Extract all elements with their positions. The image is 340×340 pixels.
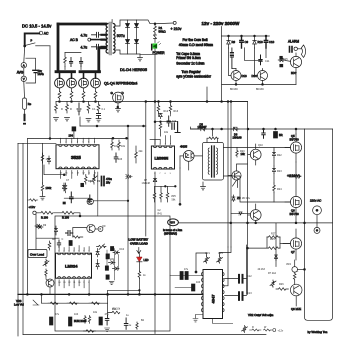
connector +12v	[33, 211, 36, 214]
resistor RW6	[136, 322, 138, 329]
trimmer VR6	[43, 259, 49, 266]
svg-text:C7: C7	[66, 179, 70, 182]
svg-text:22k: 22k	[110, 258, 115, 261]
resistor RQ8	[293, 272, 296, 280]
svg-text:4k7: 4k7	[52, 238, 57, 241]
svg-text:104: 104	[196, 281, 201, 284]
diode DA3	[278, 58, 285, 62]
svg-text:BR: BR	[279, 133, 283, 137]
thick bus top	[58, 23, 106, 26]
wire V to shunt	[23, 82, 26, 99]
resistor RW7	[108, 311, 120, 314]
svg-text:1u: 1u	[129, 324, 132, 327]
pin numbers U2	[154, 144, 172, 175]
svg-text:ALARM: ALARM	[288, 40, 299, 44]
mosfet Q3	[79, 73, 89, 92]
ground RS2	[65, 118, 70, 121]
svg-text:IRF740: IRF740	[290, 212, 300, 216]
capacitor CL1	[70, 192, 74, 203]
svg-text:3: 3	[71, 141, 73, 143]
frame left outer line	[17, 143, 19, 336]
IC U3 LM324	[56, 253, 92, 278]
mosfet Q7	[283, 229, 302, 260]
transistor QA1	[231, 69, 247, 85]
svg-text:R9: R9	[97, 180, 101, 183]
svg-text:47u: 47u	[105, 313, 110, 316]
svg-text:13: 13	[77, 173, 80, 175]
svg-text:Q10: Q10	[258, 144, 263, 147]
svg-text:4N35: 4N35	[180, 145, 188, 149]
ic1 top pin wires	[60, 138, 94, 143]
svg-text:+12v: +12v	[29, 205, 36, 209]
svg-text:OVER LOAD: OVER LOAD	[130, 242, 149, 246]
wire shutdown vertical	[145, 102, 147, 237]
wire secondary top	[116, 20, 137, 26]
diode D2	[126, 40, 130, 44]
transistor QM1	[87, 224, 95, 232]
transistor QB1	[87, 198, 93, 204]
resistor RL2	[41, 183, 44, 193]
sense resistor RS2	[66, 102, 69, 114]
svg-text:VR4: VR4	[286, 263, 291, 266]
svg-text:W: W	[264, 326, 267, 329]
diode D12v	[37, 225, 44, 229]
diode DM1	[35, 224, 41, 227]
svg-text:6: 6	[88, 141, 90, 143]
divider resistor 3	[166, 186, 169, 202]
wire +210v to alarm box	[221, 27, 223, 37]
mosfet symbol sample	[111, 91, 125, 112]
inductor LA1	[230, 48, 233, 69]
svg-text:For the Core Bolt: For the Core Bolt	[183, 38, 208, 42]
svg-text:47u: 47u	[184, 268, 189, 271]
svg-text:LM393N: LM393N	[155, 157, 169, 161]
sense resistor RS3	[87, 102, 90, 114]
frame bottom line	[23, 334, 266, 336]
feedback divider wire	[275, 223, 277, 267]
trimmer TR-A	[204, 256, 210, 263]
rail vcc ic1	[27, 137, 128, 139]
IC U1 3525	[56, 145, 99, 169]
alarm bottom rail	[222, 83, 296, 85]
svg-text:R20: R20	[240, 150, 245, 153]
wire to box	[74, 213, 80, 216]
ic4 right electrolytic pair1	[239, 275, 243, 283]
svg-text:5: 5	[170, 173, 172, 175]
resistor RM1	[73, 236, 83, 238]
resistor RQ9	[276, 288, 288, 291]
trimmer RB3	[91, 175, 98, 185]
svg-text:BD139: BD139	[256, 88, 264, 91]
svg-text:1N4007: 1N4007	[198, 125, 208, 129]
rail low drive	[231, 213, 250, 215]
resistor RB2	[85, 175, 88, 185]
transformer T2 box	[202, 142, 223, 180]
wire left fourth	[42, 143, 44, 183]
resistor RF2	[54, 211, 74, 214]
svg-text:7: 7	[159, 173, 161, 175]
trimmer TR-B	[217, 256, 223, 263]
svg-text:D: D	[122, 91, 125, 95]
diode D3	[135, 24, 139, 28]
svg-text:R9: R9	[232, 40, 236, 44]
cap blob CN2	[105, 266, 108, 270]
svg-text:D1-D4 HER505: D1-D4 HER505	[120, 67, 147, 72]
svg-text:12: 12	[82, 173, 85, 175]
svg-text:12: 12	[68, 282, 71, 284]
capacitor CT1	[114, 153, 118, 162]
svg-text:D15: D15	[283, 58, 288, 61]
capacitor CE1 pair	[102, 177, 105, 186]
left of IC resistor RL1	[41, 153, 44, 163]
svg-text:LED: LED	[144, 258, 149, 262]
capacitor CS1	[77, 103, 81, 115]
mosfet Q6	[285, 162, 302, 223]
wire network vertical	[114, 249, 116, 281]
svg-text:ZD 10v: ZD 10v	[242, 197, 251, 200]
gate resistor RG3	[82, 92, 85, 100]
alarm box left wire	[221, 36, 223, 102]
thick bus right vertical	[97, 48, 100, 72]
lm324 top pin wires	[59, 246, 89, 252]
diode DA1	[227, 36, 231, 48]
wire T2 down pair A	[227, 102, 229, 248]
svg-text:1k: 1k	[143, 274, 146, 277]
label box Over Load	[28, 249, 47, 257]
LED red LD1	[137, 257, 142, 262]
connector +210v	[155, 22, 173, 25]
svg-text:R12: R12	[164, 110, 169, 113]
capacitor CA2	[264, 36, 267, 48]
zener ZD1	[232, 195, 235, 202]
common source rail	[56, 101, 248, 103]
rail 12v horizontal	[80, 125, 144, 127]
svg-text:AC B: AC B	[70, 38, 79, 42]
capacitor CN5	[172, 122, 180, 133]
resistor RW3	[89, 302, 100, 305]
svg-text:Q8 MJE: Q8 MJE	[291, 307, 301, 311]
svg-text:12v - 220v 2000W: 12v - 220v 2000W	[202, 21, 240, 26]
svg-text:Over Load: Over Load	[30, 252, 44, 256]
svg-text:C13: C13	[247, 292, 252, 295]
thick bus left vertical	[57, 24, 60, 72]
svg-text:DC 10.5 - 14.5v: DC 10.5 - 14.5v	[22, 24, 52, 29]
cap blob under RB2	[81, 183, 84, 186]
svg-text:C9: C9	[245, 40, 249, 44]
svg-text:R25: R25	[270, 238, 275, 241]
resistor RT1	[111, 138, 114, 150]
wire shunt down	[24, 109, 26, 114]
wire gate drive upper	[224, 147, 291, 149]
gate resistor RG1	[58, 92, 61, 100]
wire diode to QA3	[285, 60, 291, 63]
svg-text:AVG: AVG	[17, 71, 24, 75]
box low-battery section	[55, 216, 170, 331]
svg-text:3525: 3525	[71, 155, 81, 160]
wire rectifier output	[137, 20, 156, 24]
svg-text:BD?: BD?	[291, 71, 297, 75]
bus main lower	[18, 293, 203, 295]
diode column B wire	[136, 20, 138, 54]
cap CT above lm324	[57, 240, 60, 247]
wire ic8 pin down	[97, 172, 99, 216]
svg-text:R26: R26	[279, 283, 284, 286]
transformer T1 terminal bars	[102, 24, 107, 47]
svg-text:Low Vol: Low Vol	[14, 303, 24, 307]
cap blob CN1	[106, 254, 109, 259]
transformer T2 left winding	[208, 148, 209, 174]
svg-text:VR2 Outpt Volt adjm: VR2 Outpt Volt adjm	[248, 313, 274, 317]
svg-text:47u: 47u	[55, 313, 60, 316]
svg-text:16: 16	[60, 173, 63, 175]
diode column A wire	[127, 20, 129, 54]
svg-text:P: P	[31, 39, 33, 43]
ic2 top rail	[150, 139, 160, 141]
diode DA2	[253, 36, 257, 48]
svg-text:????: ????	[170, 222, 176, 225]
resistor RW4 pair	[84, 316, 86, 324]
buzzer circle	[294, 47, 297, 50]
trimmer VN1	[97, 244, 107, 250]
svg-text:+ 210v: + 210v	[171, 27, 182, 31]
capacitor C104	[72, 127, 76, 131]
svg-text:R: R	[61, 108, 63, 111]
svg-text:104: 104	[69, 134, 74, 138]
svg-text:Q1-Q4 RFP50N06x4: Q1-Q4 RFP50N06x4	[104, 82, 137, 86]
resistor RD2	[236, 148, 238, 158]
svg-text:C10: C10	[269, 40, 275, 44]
thick mark	[24, 115, 26, 120]
svg-text:0.1: 0.1	[92, 108, 96, 111]
svg-text:10k: 10k	[121, 145, 126, 148]
cap blob above lm324	[69, 241, 72, 246]
diode D4	[135, 40, 139, 44]
value labels sprinkle	[43, 55, 299, 322]
svg-text:6: 6	[165, 173, 167, 175]
svg-text:Rs: Rs	[28, 102, 32, 106]
transistor QF1	[248, 144, 261, 165]
svg-text:R23: R23	[277, 170, 282, 173]
transformer T1 secondary winding	[113, 24, 115, 54]
diode DN0	[159, 114, 162, 119]
diode DL2	[63, 183, 66, 191]
transistor QA3	[290, 53, 301, 84]
socket wire	[316, 215, 318, 228]
svg-text:R27: R27	[271, 233, 276, 236]
transformer T1 primary winding	[106, 24, 108, 54]
IC U2 LM393	[151, 146, 174, 169]
capacitor CF1	[262, 129, 265, 138]
svg-text:AC: AC	[44, 32, 49, 36]
svg-text:104: 104	[74, 313, 79, 316]
svg-text:R24: R24	[277, 188, 282, 191]
resistor R1 56k	[154, 24, 157, 34]
mosfet Q1	[55, 73, 65, 92]
gate network Q7 resistors	[248, 237, 281, 248]
svg-text:10k: 10k	[93, 311, 98, 314]
divider resistor 1	[153, 186, 156, 202]
wire QM1 base	[73, 228, 87, 238]
resistor RD1 above T2	[208, 137, 219, 139]
svg-text:R22: R22	[277, 154, 282, 157]
diode D5 small	[154, 34, 157, 43]
diode D1	[126, 24, 130, 28]
diode DV1 on x155	[153, 178, 156, 181]
wire right drop	[247, 102, 249, 295]
wire mid link	[244, 48, 262, 61]
ic4 bottom ground	[193, 315, 203, 322]
svg-text:4.7u: 4.7u	[81, 33, 88, 37]
buzzer horn	[301, 45, 305, 57]
thick bus stub to xfmr	[99, 46, 106, 49]
svg-text:4.7u: 4.7u	[81, 46, 88, 50]
svg-text:Q7: Q7	[291, 250, 295, 254]
frame right U	[305, 129, 333, 320]
resistor RV6	[45, 269, 47, 276]
thick bus bar pair1	[56, 70, 75, 73]
socket terminal bottom	[314, 227, 320, 233]
sense resistor RS1	[55, 102, 58, 114]
wire mid stub	[206, 87, 208, 102]
mosfet Q2	[67, 73, 77, 92]
diode DX1 on x128	[126, 174, 132, 179]
comparator cluster cap CA	[167, 116, 170, 126]
svg-text:15: 15	[65, 173, 68, 175]
trimmer VR2	[242, 326, 248, 333]
svg-text:+210(v)-: +210(v)-	[287, 174, 302, 178]
cap blob CN3	[106, 275, 109, 279]
capacitor CF2 dark	[274, 132, 278, 139]
IC U5 4047	[201, 270, 224, 319]
diode DN3	[113, 267, 120, 270]
svg-text:BURI NA08: BURI NA08	[74, 320, 87, 323]
wire rail to frame right	[305, 128, 333, 130]
svg-text:V: V	[23, 77, 25, 81]
resistor RT2	[118, 140, 121, 150]
svg-text:10: 10	[94, 173, 97, 175]
svg-text:0.1: 0.1	[102, 108, 106, 111]
svg-text:13: 13	[63, 282, 66, 284]
ground rectifier	[138, 54, 143, 61]
resistor RT above lm324	[48, 241, 51, 250]
transistor QA2	[252, 69, 268, 85]
wire T2 down pair B	[230, 102, 232, 248]
svg-text:G: G	[111, 91, 114, 95]
rail mid horizontal	[146, 101, 248, 103]
svg-text:2: 2	[65, 141, 67, 143]
svg-text:103: 103	[118, 158, 123, 161]
wire LM317 pins down A	[154, 172, 156, 334]
svg-text:470u: 470u	[106, 177, 112, 181]
svg-text:D13: D13	[242, 74, 248, 78]
svg-text:40.163: 40.163	[258, 268, 266, 271]
svg-text:R41: R41	[158, 213, 163, 216]
svg-text:C12: C12	[247, 275, 252, 278]
svg-text:14: 14	[71, 173, 74, 175]
diode D8	[238, 212, 243, 215]
svg-text:IRF740: IRF740	[290, 138, 300, 142]
svg-text:R? 2A2: R? 2A2	[268, 272, 277, 275]
svg-text:ZD: ZD	[237, 196, 241, 200]
svg-text:40mm O.D mout 95mm: 40mm O.D mout 95mm	[179, 43, 214, 47]
resistor R shunt	[23, 98, 27, 109]
svg-text:R: R	[70, 108, 72, 111]
ic4 left blobs	[180, 272, 183, 280]
pin numbers U3	[58, 251, 90, 285]
opto left wire extended	[179, 168, 181, 204]
resistor RN1	[159, 122, 162, 136]
bias chain resistor	[273, 183, 276, 193]
capacitor CA3	[259, 55, 262, 65]
wire +12v feed down	[49, 46, 51, 139]
svg-text:1N4148: 1N4148	[233, 136, 243, 140]
pin numbers U1	[60, 141, 97, 174]
transistor QD1	[232, 171, 241, 180]
out rail horizontal	[178, 222, 332, 224]
cap blob CW3	[99, 317, 102, 325]
voltmeter V	[21, 76, 26, 81]
cap blob CW2	[69, 317, 72, 326]
wire trimmer links	[196, 253, 207, 272]
diode DN2	[109, 261, 116, 264]
svg-text:VR1: VR1	[205, 252, 210, 255]
left diode DL1	[48, 156, 51, 164]
bus secondary lower	[42, 302, 108, 304]
svg-text:by Working Ton: by Working Ton	[308, 330, 328, 334]
ic1 bottom wires	[60, 170, 94, 178]
transformer T2 right winding	[217, 148, 218, 174]
wire left ic	[44, 165, 64, 175]
resistor RL	[138, 271, 141, 278]
cap CW4	[124, 318, 128, 329]
legend row	[250, 326, 284, 333]
wire LED down to gnd wire	[154, 49, 156, 55]
LED green POWER	[153, 43, 158, 48]
ic4 right rail	[246, 245, 248, 294]
svg-text:R: R	[252, 326, 254, 329]
capacitor CM1	[66, 231, 73, 236]
wire meters	[23, 46, 26, 63]
svg-text:VR5: VR5	[218, 252, 223, 255]
battery B1 branch	[26, 58, 36, 70]
ic4 right electrolytic pair2	[239, 292, 243, 300]
wire rb bottom	[64, 197, 88, 199]
svg-text:D11: D11	[112, 308, 117, 311]
transformer T2 core	[211, 146, 213, 177]
indicator circle	[98, 227, 103, 232]
comparator cluster resistor RB	[169, 104, 172, 113]
gate resistor RG2	[70, 92, 73, 100]
svg-text:22k: 22k	[139, 150, 144, 153]
svg-text:R10: R10	[258, 40, 264, 44]
resistor RB1	[64, 183, 67, 193]
svg-text:5: 5	[82, 141, 84, 143]
svg-text:A: A	[23, 64, 25, 68]
ground under T2	[201, 182, 206, 190]
svg-text:56k: 56k	[172, 198, 177, 201]
svg-text:+12v: +12v	[278, 329, 284, 333]
svg-text:7: 7	[94, 141, 96, 143]
mosfet Q4	[91, 73, 101, 92]
wire QA2 base feed	[255, 48, 267, 76]
mosfet Q5	[285, 129, 302, 162]
diode D6	[191, 127, 207, 131]
svg-text:BD139: BD139	[230, 88, 238, 91]
capacitor CB1	[88, 195, 92, 201]
ground cluster	[109, 281, 114, 284]
gate resistor RG4	[94, 92, 97, 100]
wire QA1 base feed	[229, 48, 237, 76]
